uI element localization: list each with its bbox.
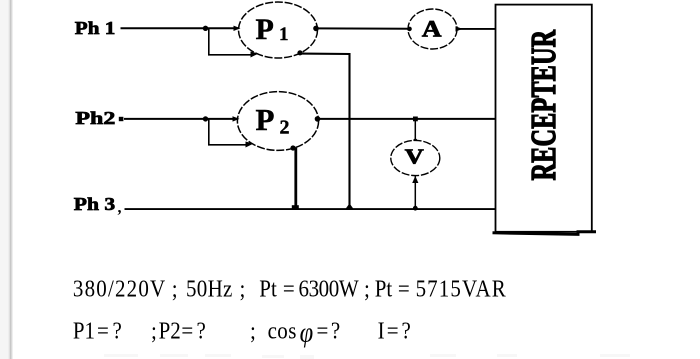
svg-text:1: 1 [279,24,289,45]
value label line 1 [73,275,507,302]
svg-text:?: ? [402,317,411,344]
svg-text:Ph 3: Ph 3 [74,194,115,214]
arrow into P2 left [233,116,240,121]
wire A to receptor box [457,28,496,30]
svg-text:P2: P2 [159,317,181,344]
svg-text:=: = [181,317,193,344]
svg-text:Pt: Pt [259,275,277,302]
node junction Ph2 / voltmeter tap [413,117,418,122]
value label line 2 [73,316,411,348]
svg-text:;: ; [151,317,157,344]
svg-text:6300W: 6300W [299,275,360,302]
node P1 right [313,26,319,32]
svg-text:RECEPTEUR: RECEPTEUR [525,30,563,181]
svg-text:=: = [97,317,109,344]
svg-text:=: = [283,275,295,302]
svg-text:;: ; [364,275,370,302]
svg-text:2: 2 [280,117,290,139]
node P2 bottom-right terminal [290,145,295,150]
receptor box U1 [496,5,592,232]
svg-text:?: ? [197,317,206,344]
page margin strip [0,0,10,359]
wire Ph3 to receptor box [125,208,497,210]
node junction Ph3 / P2 return [292,205,299,210]
svg-text:Ph2: Ph2 [75,108,115,128]
arrow out of A right [456,26,463,31]
svg-text:=: = [317,317,329,344]
svg-text:P: P [256,13,274,46]
svg-text:Pt: Pt [375,275,393,302]
arrow into P1 bottom-left [251,52,259,58]
wire P1 to ammeter A [316,27,409,29]
node at A left [407,27,412,32]
svg-text:φ: φ [300,316,314,348]
node P2 right [315,116,321,122]
node junction Ph3 / P1 return [345,203,354,210]
svg-text:380/220V: 380/220V [73,275,167,302]
svg-text:P: P [256,102,275,137]
wire P1 voltage coil L from Ph1 node [209,28,253,55]
wire P2 voltage coil return to Ph3 (thick) [294,148,297,209]
node wire-start tick after Ph2 [119,117,124,121]
svg-text:?: ? [113,317,122,344]
node P1 bottom-right terminal [297,50,302,55]
ammeter A [408,9,457,49]
op-amp wattmeter P2 [237,92,318,151]
wire Ph1 from label to P1 [121,27,240,29]
node junction on Ph2 [203,116,208,121]
node at V top [413,139,417,143]
svg-text:=: = [398,275,410,302]
svg-text:;: ; [240,275,246,302]
wire P1 voltage coil return to Ph3 [301,54,350,210]
svg-text:Ph 1: Ph 1 [75,18,116,38]
arrow into P2 bottom-left [246,142,254,148]
svg-text:;: ; [172,275,178,302]
node junction on Ph1 [203,26,208,31]
svg-text:V: V [405,144,424,168]
svg-text:,: , [118,200,122,217]
svg-text:?: ? [331,317,340,344]
arrow into V bottom [412,176,418,183]
left scan border line [9,0,10,359]
wire voltmeter bottom lead to Ph3 [414,176,416,209]
faint cut-off text smudges at bottom of scan [104,354,630,359]
wire voltmeter top lead [414,119,416,141]
receptor box bottom thick scan edge [493,232,597,235]
op-amp wattmeter P1 [239,2,318,58]
voltmeter V [391,140,440,175]
svg-text:5715VAR: 5715VAR [416,275,507,302]
svg-text:P1: P1 [73,317,95,344]
svg-text:A: A [422,16,442,41]
svg-text:I: I [378,317,385,344]
wire P2 to receptor box [318,118,497,120]
node junction Ph3 / voltmeter [413,206,418,211]
wire P2 voltage coil L from Ph2 node [209,119,248,145]
svg-text:50Hz: 50Hz [186,275,233,302]
svg-text:=: = [387,317,399,344]
arrow into P1 left [234,26,241,31]
svg-text:cos: cos [268,317,297,344]
svg-text:;: ; [250,317,256,344]
wire Ph2 from label to P2 [124,118,238,120]
